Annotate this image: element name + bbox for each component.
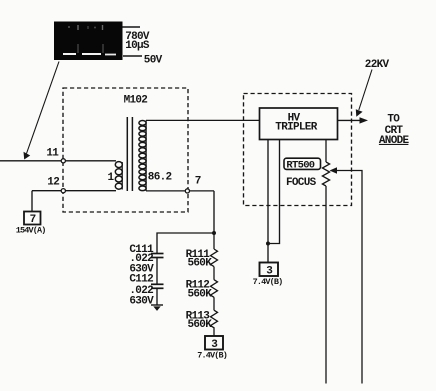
- svg-text:154V(A): 154V(A): [16, 226, 46, 236]
- wire pin 12 horizontal: [32, 190, 116, 192]
- label C112 voltage 630V: [129, 296, 154, 308]
- svg-text:11: 11: [46, 148, 59, 160]
- label R112 value 560K: [188, 288, 213, 300]
- waveform label 10uS: [125, 40, 150, 52]
- waveform pointer arrow to pin 11 wire: [24, 62, 60, 160]
- ground: [151, 305, 163, 311]
- test point box 3 (tripler): [260, 263, 279, 278]
- transformer label M102: [124, 95, 148, 107]
- label R111 value 560K: [188, 258, 213, 270]
- svg-text:10µS: 10µS: [125, 40, 150, 52]
- wire C111 to C112: [156, 258, 158, 285]
- label R113: [186, 310, 211, 322]
- svg-text:22KV: 22KV: [365, 59, 390, 71]
- svg-text:560K: 560K: [188, 319, 213, 331]
- HV tripler module dashed outline: [244, 94, 352, 206]
- HV tripler box: [260, 108, 338, 140]
- svg-text:7: 7: [30, 214, 36, 226]
- label 22KV: [365, 59, 390, 71]
- HV tripler bottom pin wires: [268, 140, 280, 263]
- svg-text:630V: 630V: [129, 296, 154, 308]
- wire pin 11 horizontal: [0, 160, 116, 162]
- svg-text:C112: C112: [129, 274, 153, 286]
- label FOCUS: [286, 177, 317, 189]
- primary pin label 1: [108, 172, 115, 184]
- focus pot wiper arrow and wire: [330, 167, 363, 383]
- transformer secondary winding: [139, 120, 146, 190]
- label C112 value .022: [129, 285, 153, 297]
- capacitor C111: [151, 254, 164, 258]
- wire C112 to ground: [156, 288, 158, 305]
- svg-text:50V: 50V: [144, 55, 163, 67]
- output wire with arrow to CRT anode: [338, 117, 369, 123]
- pin label 7: [195, 176, 201, 188]
- svg-text:7.4V(B): 7.4V(B): [253, 277, 283, 287]
- label C111 value .022: [129, 253, 153, 265]
- svg-text:FOCUS: FOCUS: [286, 177, 317, 189]
- svg-text:86.2: 86.2: [148, 172, 172, 184]
- voltage label 7.4V(B) tripler: [253, 277, 283, 287]
- svg-text:560K: 560K: [188, 288, 213, 300]
- wire secondary top to HV tripler: [146, 119, 260, 121]
- svg-text:M102: M102: [124, 95, 148, 107]
- label C112: [129, 274, 153, 286]
- voltage label 7.4V(B) divider: [197, 351, 227, 361]
- junction dot tripler pins: [266, 242, 270, 246]
- test point box 7: [24, 212, 41, 227]
- svg-text:TRIPLER: TRIPLER: [275, 121, 317, 133]
- waveform photo W1 (scope trace): [54, 22, 123, 61]
- resistor R111: [211, 233, 218, 267]
- node pin 11: [61, 159, 65, 163]
- svg-text:RT500: RT500: [286, 160, 314, 172]
- wire junction to capacitor branch: [157, 233, 214, 253]
- resistor R113: [211, 297, 218, 336]
- svg-text:7.4V(B): 7.4V(B): [197, 351, 227, 361]
- pin label 12: [47, 177, 59, 189]
- transformer core: [127, 117, 132, 191]
- pin label 11: [46, 148, 59, 160]
- label R111: [186, 249, 211, 261]
- svg-text:12: 12: [47, 177, 59, 189]
- capacitor C112: [151, 284, 164, 288]
- waveform label 50V: [144, 55, 163, 67]
- transformer T102 dashed outline: [63, 88, 188, 212]
- focus control RT500 box: [284, 158, 321, 172]
- transformer primary winding (pin 11-12): [115, 162, 122, 190]
- wire from pin 12 down to test point 7: [31, 191, 33, 212]
- svg-text:560K: 560K: [188, 258, 213, 270]
- secondary ratio label 86.2: [148, 172, 172, 184]
- junction dot divider top: [212, 231, 216, 235]
- label C111: [129, 244, 154, 256]
- svg-text:TO: TO: [387, 114, 400, 126]
- label R112: [186, 279, 210, 291]
- svg-text:ANODE: ANODE: [379, 135, 410, 147]
- label R113 value 560K: [188, 319, 213, 331]
- voltage label 154V(A): [16, 226, 46, 236]
- node pin 12: [61, 189, 65, 193]
- label C111 voltage 630V: [129, 263, 154, 275]
- waveform 50V reference tick: [123, 55, 142, 57]
- resistor R112: [211, 267, 218, 298]
- waveform label 780V: [125, 31, 150, 43]
- wire secondary bottom to pin 7 node: [146, 190, 214, 192]
- node pin 7: [185, 189, 189, 193]
- wire pin 7 down to divider junction: [213, 191, 215, 233]
- test point box 3 (divider): [205, 336, 223, 351]
- 22KV callout arrow: [356, 70, 372, 117]
- svg-text:7: 7: [195, 176, 201, 188]
- label TO CRT ANODE: [379, 114, 410, 147]
- waveform top reference tick: [123, 26, 141, 28]
- focus potentiometer RT500 element: [322, 140, 329, 384]
